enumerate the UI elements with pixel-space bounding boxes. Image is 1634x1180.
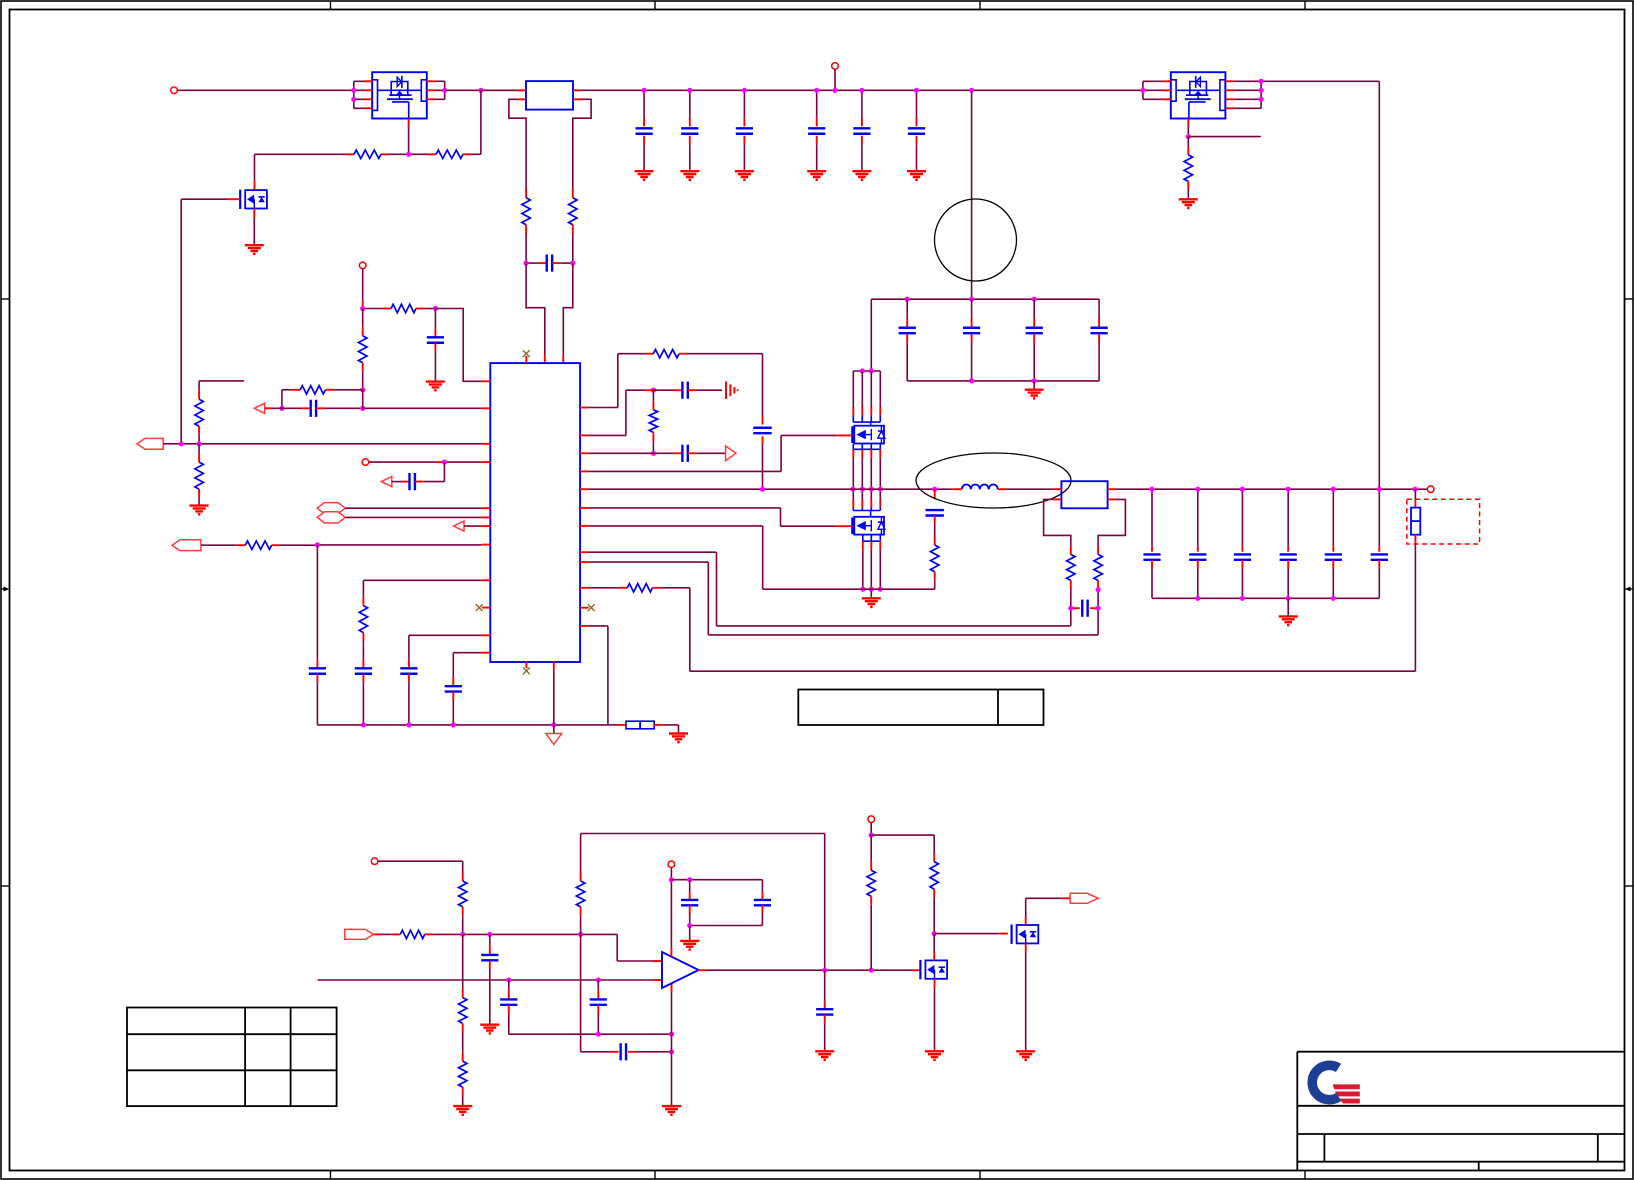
junction output rail 3 xyxy=(1286,487,1291,492)
junction P1 row a xyxy=(179,441,184,446)
transistor Q1 PMOS module xyxy=(372,72,427,118)
no-connect X top pin xyxy=(523,350,530,357)
terminal J7 opamp supply xyxy=(668,861,675,868)
border zone ticks top xyxy=(330,1,332,10)
wire stub net label row xyxy=(199,380,244,382)
junction Q1 right bracket xyxy=(442,88,447,93)
U2 right pins xyxy=(573,89,582,91)
junction opamp supply xyxy=(669,877,674,882)
junction VIN bus cap 1 xyxy=(687,88,692,93)
ground after fuse xyxy=(678,725,680,734)
junction supply cap bottom xyxy=(687,923,692,928)
terminal J8 pullup supply xyxy=(868,816,875,823)
resistor R12 xyxy=(618,353,645,355)
capacitor C18 xyxy=(452,653,454,678)
junction lower bus a xyxy=(596,1032,601,1037)
junction Q8 drain node xyxy=(932,931,937,936)
wire J4 row drop xyxy=(443,462,445,482)
capacitor C15 xyxy=(309,667,326,669)
U2 left pins xyxy=(518,89,527,91)
power flag triangle xyxy=(553,725,555,734)
wire Q7 gate stub right xyxy=(1188,136,1261,138)
junction input node a xyxy=(460,932,465,937)
wire R7 left leg down xyxy=(281,390,283,409)
capacitor C5 input decoupling xyxy=(816,90,818,118)
no-connect X right pin xyxy=(580,607,589,609)
capacitor C8 bulk xyxy=(906,299,908,318)
component R16 current sense block xyxy=(1061,481,1107,508)
wire IC sense+ nested xyxy=(589,551,717,553)
annotation circle xyxy=(935,199,1017,281)
resistor R24 hysteresis xyxy=(580,834,582,873)
wire J4 to IC xyxy=(369,461,436,463)
shield bars symbol xyxy=(725,382,727,400)
resistor R9 to ground xyxy=(198,444,200,454)
wire M2 output drop xyxy=(1261,80,1379,82)
fuse FB1 ground tie xyxy=(608,724,618,726)
resistor R5 xyxy=(363,308,383,310)
ground C30 xyxy=(480,1023,499,1025)
port flag P1 xyxy=(137,438,163,449)
capacitor C13 series comp xyxy=(265,407,273,409)
junction output load branch xyxy=(1413,487,1418,492)
resistor R18 kelvin right xyxy=(1097,546,1099,555)
junction VIN bus at gate resistor branch xyxy=(478,88,483,93)
resistor R2 gate pulldown xyxy=(428,153,437,155)
resistor R8 vertical upper-left xyxy=(198,381,200,391)
ground C2 xyxy=(635,170,654,172)
company logo xyxy=(1312,1065,1360,1103)
capacitor C30 input filter xyxy=(489,934,491,945)
junction VIN bus to bulk caps xyxy=(969,88,974,93)
junction soft start row xyxy=(315,542,320,547)
border center arrow right xyxy=(1628,588,1633,590)
wire lower ground bus xyxy=(509,1033,672,1035)
junction kelvin cap right xyxy=(1096,606,1101,611)
wire supply cap bottom rail xyxy=(690,925,763,927)
port flag P5 input xyxy=(345,929,374,939)
Q3 source columns to switch node xyxy=(852,449,854,458)
resistor R19 gate pulldown xyxy=(1187,137,1189,147)
ground Q8 xyxy=(925,1050,944,1052)
Q4 gate wire from controller xyxy=(836,525,853,527)
wire IC pin to Q3 gate jog xyxy=(589,470,782,472)
resistor R7 horizontal xyxy=(282,389,292,391)
transistor Q7 PMOS module output xyxy=(1171,72,1226,118)
capacitor C21 comp to arrow xyxy=(589,452,654,454)
resistor R3 kelvin left xyxy=(525,189,527,198)
transistor Q9 NMOS xyxy=(1017,925,1039,943)
no-connect X left pin xyxy=(482,607,491,609)
component F1 load fuse xyxy=(1414,489,1416,499)
wire sense kelvin right bracket xyxy=(1098,499,1125,546)
junction Q7 left bracket xyxy=(1140,88,1145,93)
wire soft start cap column xyxy=(316,545,318,660)
wire comp row to IC xyxy=(363,407,482,409)
junction input node b xyxy=(487,932,492,937)
capacitor C17 xyxy=(408,635,410,660)
transistor Q3 high-side NMOS xyxy=(852,416,854,423)
terminal J6 lower input xyxy=(371,858,378,865)
U1 right pin stubs xyxy=(580,407,589,409)
junction Q7 gate node xyxy=(1186,134,1191,139)
component U2 input sense block xyxy=(526,81,573,110)
capacitor C31 xyxy=(508,980,510,990)
junction switch node comp xyxy=(760,487,765,492)
terminal J1 input xyxy=(171,87,178,94)
wire A3 to IC xyxy=(464,525,482,527)
wire IC pin to Q4 gate row xyxy=(589,507,781,509)
capacitor C32 xyxy=(597,980,599,990)
IC U1 controller xyxy=(490,363,580,662)
capacitor C14 feedback xyxy=(392,481,401,483)
inductor L1 xyxy=(952,488,962,490)
wire gate branch down xyxy=(480,90,482,154)
wire input row to opamp xyxy=(463,933,618,935)
ground C7 xyxy=(907,170,926,172)
junction pullup rail xyxy=(869,833,874,838)
Q7 pin box right xyxy=(1220,80,1225,111)
junction VIN bus cap 4 xyxy=(859,88,864,93)
wire sense kelvin left bracket xyxy=(1044,499,1071,546)
annotation ellipse xyxy=(916,453,1071,508)
junction output rail 0 xyxy=(1149,487,1154,492)
opamp vplus pin xyxy=(670,948,672,957)
port flag P4 xyxy=(172,540,201,551)
junction P1 row b xyxy=(197,441,202,446)
Q4 source columns to ground rail xyxy=(862,541,864,550)
junction sense cap left xyxy=(524,261,529,266)
wire P1 row to IC xyxy=(163,443,482,445)
wire switch node to Q4 drain columns xyxy=(852,489,854,499)
junction Q7 right bracket xyxy=(1259,79,1264,84)
wire IC pin up to comp node xyxy=(589,434,626,436)
U1 bottom pin stubs xyxy=(525,662,527,668)
resistor R22 lower divider xyxy=(462,934,464,989)
wire IC pin to R12 feedback top xyxy=(589,407,618,409)
resistor R25 pullup xyxy=(870,835,872,862)
Q7 left pins and bracket xyxy=(1143,80,1163,82)
ground C12 xyxy=(426,380,445,382)
junction output rail 4 xyxy=(1331,487,1336,492)
transistor Q4 low-side NMOS xyxy=(852,508,854,511)
transistor Q8 NMOS xyxy=(925,960,947,978)
junction kelvin right ground rail xyxy=(1096,587,1101,592)
wire Q3 drain tie bar xyxy=(853,370,880,372)
wire J3 down xyxy=(362,269,364,300)
ground Q2 source xyxy=(245,244,264,246)
junction VIN terminal xyxy=(832,88,837,93)
sheet connector arrow A1 xyxy=(254,403,264,413)
wire P3 to IC xyxy=(345,516,482,518)
wire feedback low bus xyxy=(689,588,691,671)
resistor R10 soft start xyxy=(201,544,237,546)
no-connect X bottom pin xyxy=(523,667,530,674)
junction comp node bottom xyxy=(651,451,656,456)
wire IC pin to R11 column xyxy=(363,579,481,581)
Q8 source to ground xyxy=(934,979,936,988)
transistor Q2 NMOS xyxy=(245,190,267,208)
wire IC pin to C17 column xyxy=(409,634,482,636)
wire opamp vminus to ground xyxy=(671,983,673,992)
wire sense right column to IC xyxy=(563,263,573,355)
capacitor C6 input decoupling xyxy=(861,90,863,118)
resistor R1 gate xyxy=(346,153,355,155)
ground C36 xyxy=(815,1050,834,1052)
Q3 gate wire from controller xyxy=(836,434,853,436)
capacitor C4 input decoupling xyxy=(743,90,745,118)
Q8 drain wire xyxy=(933,934,935,952)
Q9 source to ground xyxy=(1025,943,1027,952)
sheet connector arrow A3 xyxy=(454,521,464,531)
junction output rail 2 xyxy=(1240,487,1245,492)
junction input node c xyxy=(578,932,583,937)
junction R5 node xyxy=(360,306,365,311)
junction kelvin cap left xyxy=(1068,606,1073,611)
wire J6 to R20 column xyxy=(378,860,463,862)
title block xyxy=(1297,1051,1624,1053)
capacitor C34 supply xyxy=(689,880,691,892)
wire Q3 drain columns xyxy=(852,371,854,407)
capacitor C33 series xyxy=(610,1051,619,1053)
wire bulk capacitor bottom rail xyxy=(907,380,1099,382)
Q1 gate pin stub xyxy=(408,119,410,128)
junction VIN bus cap 0 xyxy=(642,88,647,93)
resistor R6 divider xyxy=(362,309,364,328)
junction Q3 sources on switch node xyxy=(850,487,855,492)
resistor R17 kelvin left xyxy=(1070,546,1072,555)
resistor R20 upper divider xyxy=(462,861,464,872)
resistor R21 input series xyxy=(373,933,382,935)
wire U2 right kelvin bracket xyxy=(573,99,591,188)
junction C33 right xyxy=(669,1049,674,1054)
wire U2 left kelvin bracket xyxy=(509,99,526,188)
junction VIN bus cap 3 xyxy=(814,88,819,93)
border center arrow left xyxy=(1,588,6,590)
terminal J3 enable xyxy=(359,262,366,269)
revision table xyxy=(127,1008,337,1107)
capacitor C26 output xyxy=(1241,489,1243,546)
junction comp row left xyxy=(279,406,284,411)
capacitor C10 bulk xyxy=(1033,299,1035,318)
junction Q4 sources on ground rail xyxy=(860,587,865,592)
resistor R15 snubber xyxy=(934,537,936,546)
junction ground rail dots xyxy=(361,722,366,727)
port flag P2 double upper xyxy=(317,503,345,514)
terminal J2 VIN tap xyxy=(832,63,839,70)
capacitor C23 kelvin series xyxy=(1070,607,1073,609)
junction gate resistor node xyxy=(406,152,411,157)
wire Q2 gate net vertical xyxy=(180,199,182,444)
resistor R23 lower divider 2 xyxy=(462,1032,464,1053)
load dashed box xyxy=(1407,499,1480,544)
capacitor C27 output xyxy=(1287,489,1289,546)
wire IC sense- nested xyxy=(589,561,709,563)
wire R5 node to IC pin xyxy=(435,309,481,382)
port flag P3 double lower xyxy=(317,512,345,523)
capacitor C9 bulk xyxy=(971,299,973,318)
junction sense cap right xyxy=(570,261,575,266)
wire Q1 to node VIN bus xyxy=(445,89,526,91)
ground rail power stage xyxy=(763,588,935,590)
junction VIN bus cap 2 xyxy=(742,88,747,93)
ground R9 xyxy=(190,504,209,506)
Q7 right pins and bracket xyxy=(1234,80,1261,82)
border zone ticks bottom xyxy=(330,1171,332,1180)
resistor R14 feedback low xyxy=(589,587,619,589)
ground C6 xyxy=(852,170,871,172)
wire IC pin to C18 column xyxy=(453,652,482,654)
wire switch node row xyxy=(589,488,953,490)
resistor R11 and capacitor C16 column xyxy=(362,580,364,597)
terminal J4 feedback test xyxy=(362,459,369,466)
wire output rail xyxy=(1116,488,1427,490)
Q7 gate pin stub xyxy=(1187,119,1189,128)
wire bulk capacitor top rail xyxy=(871,298,1099,300)
capacitor C22 snubber xyxy=(934,489,936,499)
op-amp U3 comparator xyxy=(662,952,699,988)
R16 pins xyxy=(1053,488,1062,490)
junction Q1 left bracket xyxy=(351,88,356,93)
ground bulk caps xyxy=(1033,381,1035,390)
junction output rail 1 xyxy=(1195,487,1200,492)
wire divider to comp row xyxy=(362,390,364,409)
capacitor C7 input decoupling xyxy=(916,90,918,118)
capacitor C1 series sense xyxy=(526,262,538,264)
capacitor C29 output xyxy=(1378,489,1380,546)
capacitor C25 output xyxy=(1197,489,1199,546)
wire P2 to IC xyxy=(345,507,482,509)
junction minus row b xyxy=(596,977,601,982)
ground R19 xyxy=(1179,198,1198,200)
wire VIN input to Q1 module xyxy=(177,89,353,91)
wire opamp minus row xyxy=(318,979,654,981)
junction VIN bus cap 5 xyxy=(914,88,919,93)
sheet connector arrow A2 xyxy=(382,477,392,487)
wire Q8 drain to Q9 gate xyxy=(934,933,999,935)
wire input node c drop xyxy=(580,934,582,1051)
border zone ticks right xyxy=(1625,298,1634,300)
wire rail to IC exposed pad xyxy=(589,625,608,627)
Q1 pin box right xyxy=(421,80,426,101)
junction minus row a xyxy=(506,977,511,982)
terminal J5 output xyxy=(1427,486,1434,493)
ground Q9 xyxy=(1016,1050,1035,1052)
Q9 drain to flag xyxy=(1025,917,1027,926)
junction divider node xyxy=(360,387,365,392)
Q2 gate wire xyxy=(227,198,240,200)
junction comp node top xyxy=(651,388,656,393)
capacitor C28 output xyxy=(1332,489,1334,546)
Q1 pin box left xyxy=(372,80,377,111)
wire VIN bus top xyxy=(582,89,1143,91)
Q1 right pins and bracket xyxy=(435,80,445,82)
Q7 pin box left xyxy=(1171,80,1176,101)
Q1 left pins and bracket xyxy=(354,80,364,82)
ground opamp xyxy=(662,1105,681,1107)
capacitor C20 to shield xyxy=(645,389,653,391)
ground power stage xyxy=(870,589,872,598)
ground C3 xyxy=(680,170,699,172)
wire IC ground pin down xyxy=(553,670,555,725)
U1 left pin stubs xyxy=(482,380,491,382)
ground C4 xyxy=(735,170,754,172)
junction J4 row xyxy=(442,460,447,465)
wire IC pin to power ground xyxy=(589,525,763,527)
junction output row b xyxy=(869,968,874,973)
junction snubber on switch node xyxy=(932,487,937,492)
junction lower bus b xyxy=(669,1032,674,1037)
wire sense left column to IC xyxy=(526,263,545,355)
capacitor C19 series to switch node xyxy=(762,354,764,416)
sheet connector arrow A4 right xyxy=(726,446,736,461)
wire pullup rail xyxy=(871,834,934,836)
capacitor C2 input decoupling xyxy=(643,90,645,118)
ground output caps xyxy=(1287,598,1289,616)
junction supply cap a xyxy=(687,877,692,882)
junction output rail 5 xyxy=(1377,487,1382,492)
ground supply caps xyxy=(689,926,691,941)
wire VIN bus down to bulk capacitor rail xyxy=(971,90,973,299)
junction R5 to C node xyxy=(433,306,438,311)
Q2 source to ground xyxy=(253,209,255,218)
U1 top pin stubs xyxy=(525,356,527,363)
wire output caps bottom rail xyxy=(1152,597,1379,599)
capacitor C35 supply xyxy=(761,880,763,892)
resistor R4 kelvin right xyxy=(572,189,574,198)
wire load return xyxy=(1414,535,1416,544)
resistor R13 comp xyxy=(652,390,654,401)
capacitor C12 enable filter xyxy=(434,309,436,329)
wire opamp supply rail xyxy=(671,879,762,881)
border zone ticks left xyxy=(1,298,10,300)
ground R23 xyxy=(453,1105,472,1107)
capacitor C3 input decoupling xyxy=(689,90,691,118)
port flag P6 output signal xyxy=(1070,893,1098,903)
note box xyxy=(798,690,1043,726)
wire gate row to Q2 drain xyxy=(254,154,256,181)
wire hysteresis feedback top xyxy=(581,833,825,835)
wire bulk rail to Q3 drain header xyxy=(870,299,872,371)
wire IC ground rail xyxy=(317,724,608,726)
junction output row a xyxy=(822,968,827,973)
wire opamp output row xyxy=(699,969,708,971)
junction comp row mid xyxy=(360,406,365,411)
capacitor C36 output filter xyxy=(824,970,826,1001)
resistor R26 level pullup xyxy=(933,835,935,853)
wire VIN bus to U2 xyxy=(481,89,518,91)
wire gate resistor row xyxy=(255,153,346,155)
capacitor C11 bulk xyxy=(1098,299,1100,318)
ground C5 xyxy=(807,170,826,172)
capacitor C24 output xyxy=(1151,489,1153,546)
